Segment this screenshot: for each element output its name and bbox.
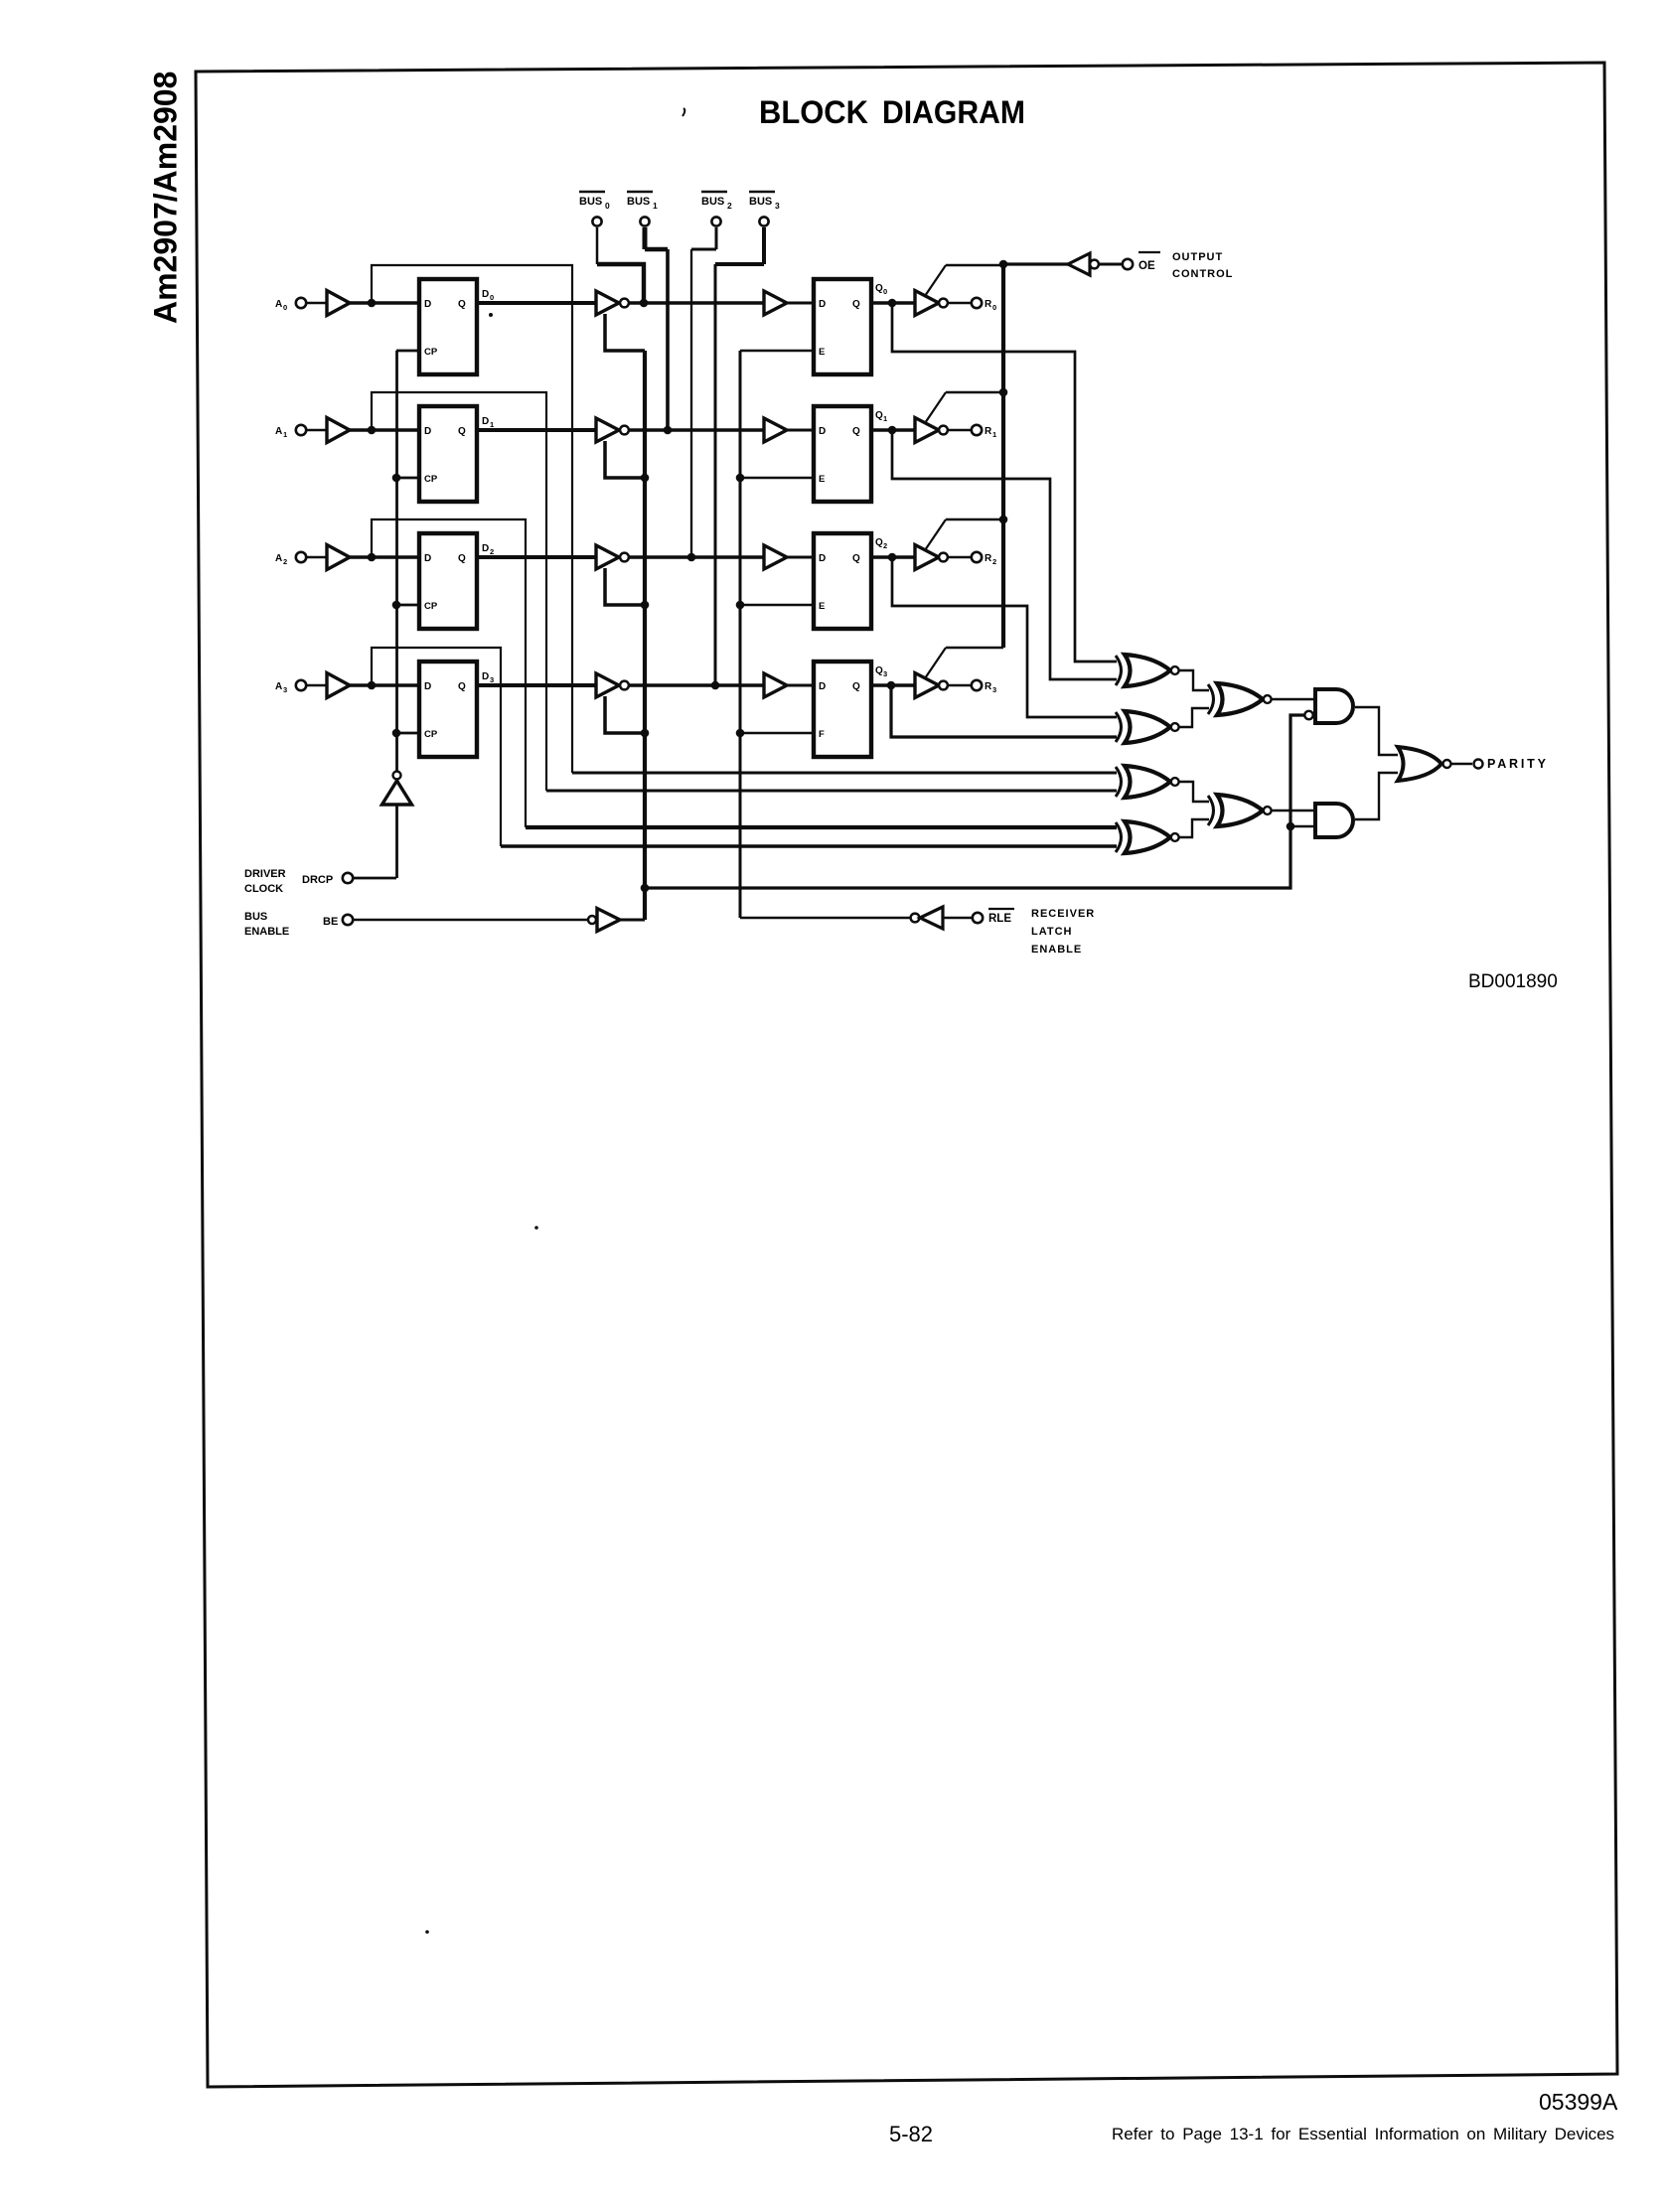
svg-text:R: R — [985, 426, 992, 437]
svg-text:0: 0 — [992, 303, 996, 312]
svg-text:D: D — [819, 299, 826, 310]
wire bus node row2 — [629, 555, 764, 559]
svg-text:A: A — [275, 299, 282, 310]
wire CP pin row2 — [396, 604, 419, 607]
BE buffer input bubble — [588, 916, 596, 924]
wire buffer0 output to latch D — [350, 301, 419, 305]
wire BE enable chain vertical — [643, 351, 647, 920]
wire buffer1 output to latch D — [350, 428, 419, 432]
node A0 input terminal — [275, 298, 306, 312]
wire RLE lead — [943, 917, 972, 920]
wire clock inverter input — [395, 805, 398, 878]
svg-text:0: 0 — [883, 287, 887, 296]
junction A1 feedback tap — [368, 426, 377, 435]
wire BE to parity gates — [645, 715, 1304, 888]
svg-text:Q: Q — [458, 426, 466, 437]
wire D2 latch Q to bus driver — [477, 555, 596, 559]
svg-text:BUS: BUS — [579, 196, 602, 208]
receiver buffer 1 — [764, 418, 787, 442]
svg-text:Refer to Page 13-1 for Essenti: Refer to Page 13-1 for Essential Informa… — [1112, 2125, 1614, 2143]
wire bus node row3 — [629, 683, 764, 687]
node R2 terminal — [972, 552, 996, 566]
svg-text:CP: CP — [424, 729, 438, 740]
wire D1 latch Q to bus driver — [477, 428, 596, 432]
wire receiver latch 0 E pin — [740, 350, 814, 353]
wire BE lead — [354, 919, 588, 922]
junction CP chain y481 — [392, 474, 401, 483]
svg-text:3: 3 — [283, 685, 287, 694]
node BE terminal — [343, 915, 353, 925]
wire output driver 2 enable jog — [946, 518, 1003, 521]
xnor gate X1 (Q0 xor Q1) — [1116, 655, 1179, 686]
wire output driver 1 enable diagonal — [925, 392, 946, 423]
wire BUS3 stem — [762, 227, 766, 264]
node DRCP terminal — [343, 873, 353, 883]
xnor gate X5 (second level, receiver side) — [1208, 683, 1272, 715]
wire G2 out — [1355, 773, 1398, 819]
wire BUS2 stem — [715, 227, 718, 249]
wire A2 lead — [307, 556, 328, 559]
svg-text:05399A: 05399A — [1539, 2089, 1618, 2115]
junction E chain y738 — [736, 729, 745, 738]
junction BE line / AND2 input — [1287, 822, 1295, 831]
svg-text:R: R — [985, 681, 992, 692]
wire receiver buffer 3 to latch — [787, 684, 814, 687]
svg-text:1: 1 — [653, 201, 658, 211]
scan speck near title — [683, 108, 684, 116]
wire output driver 3 enable diagonal — [925, 648, 946, 678]
label Q0 — [875, 283, 887, 296]
wire BE buffer out — [620, 919, 645, 922]
svg-text:2: 2 — [727, 201, 732, 211]
wire BUS3 jog — [715, 262, 764, 266]
wire latch2 Q to output driver — [871, 555, 915, 559]
svg-text:Q: Q — [458, 553, 466, 564]
svg-text:1: 1 — [490, 420, 494, 429]
svg-text:Q: Q — [852, 426, 860, 437]
wire buffer2 output to latch D — [350, 555, 419, 559]
svg-text:0: 0 — [283, 303, 287, 312]
junction Q0 feed tap — [888, 299, 897, 308]
wire bus node row1 — [629, 428, 764, 432]
svg-text:D: D — [424, 299, 431, 310]
page border frame — [196, 63, 1617, 2087]
bus driver 1 — [596, 418, 619, 442]
BE buffer — [597, 909, 620, 932]
driver latch 2 — [419, 533, 477, 629]
driver latch 3 — [419, 662, 477, 757]
scan speck mid page — [534, 1226, 538, 1230]
node A2 input terminal — [275, 552, 306, 566]
wire output driver 0 to R0 — [948, 302, 972, 305]
svg-text:3: 3 — [775, 201, 780, 211]
svg-text:D: D — [482, 289, 489, 300]
wire output driver 3 enable jog — [946, 647, 1003, 650]
svg-text:D: D — [424, 426, 431, 437]
svg-text:Q: Q — [875, 283, 883, 294]
junction E chain y609 — [736, 601, 745, 610]
junction enable chain y609 — [641, 601, 650, 610]
wire X5 out to NAND — [1272, 698, 1316, 700]
output driver 0 — [915, 291, 939, 316]
scan speck under D0 line — [489, 313, 493, 317]
wire BUS2 vertical to row2 — [690, 249, 692, 557]
xnor gate X4 (A2 xor A3) — [1116, 821, 1179, 853]
RLE inverter — [920, 907, 943, 929]
label OUTPUT CONTROL — [1172, 251, 1233, 280]
svg-text:Am2907/Am2908: Am2907/Am2908 — [148, 72, 184, 324]
input buffer A2 — [327, 545, 350, 570]
svg-text:D: D — [482, 543, 489, 554]
label D2 — [482, 543, 494, 556]
svg-text:Q: Q — [875, 665, 883, 676]
wire G1 out — [1355, 707, 1398, 755]
svg-text:D: D — [424, 681, 431, 692]
svg-text:BUS: BUS — [244, 911, 267, 923]
label D1 — [482, 416, 494, 429]
svg-text:1: 1 — [992, 430, 996, 439]
svg-text:3: 3 — [883, 669, 887, 678]
svg-text:BUS: BUS — [749, 196, 772, 208]
driver latch 0 — [419, 279, 477, 374]
bus driver 2 — [596, 545, 619, 569]
label Q1 — [875, 410, 887, 423]
wire latch1 Q to output driver — [871, 428, 915, 432]
junction CP chain y609 — [392, 601, 401, 610]
svg-text:DIAGRAM: DIAGRAM — [882, 94, 1025, 130]
output driver 1 — [915, 418, 939, 443]
wire PARITY lead — [1452, 763, 1473, 765]
wire X4 out — [1179, 819, 1210, 837]
svg-text:A: A — [275, 426, 282, 437]
bus driver 0 output bubble — [620, 299, 629, 308]
label D0 — [482, 289, 494, 302]
wire CP pin row3 — [396, 732, 419, 735]
output driver 3 — [915, 673, 939, 698]
wire receiver latch 1 E pin — [740, 477, 814, 480]
wire X3 out — [1179, 782, 1210, 802]
output driver 1 bubble — [939, 426, 948, 435]
wire receiver latch 2 E pin — [740, 604, 814, 607]
svg-text:E: E — [819, 601, 825, 612]
bus driver 3 output bubble — [620, 681, 629, 690]
svg-text:5-82: 5-82 — [889, 2122, 933, 2146]
svg-text:BE: BE — [323, 916, 338, 928]
label BUS ENABLE — [244, 911, 338, 938]
wire RLE latch-enable chain vertical — [739, 351, 742, 918]
svg-text:RECEIVER: RECEIVER — [1031, 908, 1095, 920]
wire receiver latch 3 E pin — [740, 732, 814, 735]
junction enable chain y481 — [641, 474, 650, 483]
svg-text:Q: Q — [458, 299, 466, 310]
wire parity line from A1 to XOR — [546, 790, 1117, 793]
wire receiver buffer 1 to latch — [787, 429, 814, 432]
svg-text:A: A — [275, 553, 282, 564]
wire A3 lead — [307, 684, 328, 687]
svg-text:BLOCK: BLOCK — [759, 94, 868, 130]
nand gate G1 — [1315, 689, 1353, 723]
wire latch3 Q to output driver — [871, 683, 915, 687]
receiver buffer 0 — [764, 291, 787, 315]
wire latch0 Q to output driver — [871, 301, 915, 305]
wire BUS0 stem — [596, 227, 599, 264]
svg-text:OUTPUT: OUTPUT — [1172, 251, 1223, 263]
svg-text:Q: Q — [875, 410, 883, 421]
node BUS3 terminal — [749, 192, 780, 226]
junction BUS1/row1 — [664, 426, 673, 435]
wire BUS2 jog — [691, 248, 716, 251]
wire parity line from A3 to XOR — [501, 844, 1117, 848]
wire output driver 1 enable jog — [946, 391, 1003, 394]
svg-text:D: D — [819, 553, 826, 564]
wire DRCP clock chain vertical — [395, 351, 398, 772]
wire receiver buffer 2 to latch — [787, 556, 814, 559]
junction BE/parity-gate line — [641, 884, 650, 893]
scan speck lower left — [425, 1930, 429, 1934]
svg-text:CONTROL: CONTROL — [1172, 268, 1233, 280]
OC inverter — [1068, 253, 1090, 275]
bus driver 1 output bubble — [620, 426, 629, 435]
svg-text:RLE: RLE — [988, 913, 1011, 925]
wire Q2 parity feed — [892, 557, 1117, 717]
node R1 terminal — [972, 425, 996, 439]
svg-text:D: D — [482, 671, 489, 682]
wire BE branch to AND2 — [1290, 825, 1315, 828]
svg-text:2: 2 — [992, 557, 996, 566]
bus driver 3 — [596, 673, 619, 697]
wire output driver 0 enable jog — [946, 264, 1003, 267]
svg-text:BUS: BUS — [701, 196, 724, 208]
label Q2 — [875, 537, 887, 550]
junction BUS0/row0 — [640, 299, 649, 308]
svg-text:E: E — [819, 474, 825, 485]
svg-text:0: 0 — [605, 201, 610, 211]
svg-text:OE: OE — [1138, 260, 1155, 272]
output driver 2 bubble — [939, 553, 948, 562]
nand gate G1 input bubble — [1304, 711, 1312, 719]
receiver buffer 2 — [764, 545, 787, 569]
svg-text:2: 2 — [490, 547, 494, 556]
label RECEIVER LATCH ENABLE — [1031, 908, 1095, 956]
xnor gate X6 (second level, driver side) — [1208, 795, 1272, 826]
nor gate G3 (parity output) — [1398, 747, 1451, 781]
wire BUS1 vertical to row1 — [666, 249, 670, 430]
node OE terminal — [1123, 252, 1160, 272]
output driver 2 — [915, 545, 939, 570]
label Q3 — [875, 665, 887, 678]
junction Q2 feed tap — [888, 553, 897, 562]
wire bus driver 2 enable jog — [605, 568, 645, 605]
svg-text:D: D — [424, 553, 431, 564]
output driver 0 bubble — [939, 299, 948, 308]
wire parity line from A2 to XOR — [526, 825, 1117, 829]
wire BUS1 jog — [645, 247, 668, 252]
svg-text:1: 1 — [883, 414, 887, 423]
node R3 terminal — [972, 680, 996, 694]
junction A2 feedback tap — [368, 553, 377, 562]
svg-text:3: 3 — [992, 685, 996, 694]
receiver latch 0 — [814, 279, 871, 374]
bus driver 2 output bubble — [620, 553, 629, 562]
wire DRCP lead — [354, 877, 396, 880]
receiver latch 2 — [814, 533, 871, 629]
node A1 input terminal — [275, 425, 306, 439]
wire bus node row0 — [629, 301, 764, 305]
junction enable chain y738 — [641, 729, 650, 738]
wire bus driver 0 enable jog — [605, 314, 645, 351]
wire bus driver 3 enable jog — [605, 696, 645, 733]
svg-text:3: 3 — [490, 675, 494, 684]
svg-text:R: R — [985, 553, 992, 564]
wire X6 out to AND2 — [1272, 810, 1316, 811]
wire parity line from A0 to XOR — [572, 772, 1117, 775]
wire A1 parity feed — [372, 392, 546, 791]
junction Q1 feed tap — [888, 426, 897, 435]
svg-text:CP: CP — [424, 601, 438, 612]
wire BUS1 stem — [643, 227, 648, 249]
svg-text:D: D — [482, 416, 489, 427]
wire output driver 1 to R1 — [948, 429, 972, 432]
svg-text:Q: Q — [852, 299, 860, 310]
junction Q3 feed tap — [887, 681, 896, 690]
svg-text:DRIVER: DRIVER — [244, 868, 286, 880]
xnor gate X2 (Q2 xor Q3) — [1116, 711, 1179, 743]
wire OC output-control chain vertical — [1001, 264, 1005, 648]
svg-text:Q: Q — [852, 553, 860, 564]
xnor gate X3 (A0 xor A1) — [1116, 766, 1179, 798]
svg-text:DRCP: DRCP — [302, 874, 333, 886]
junction CP chain y738 — [392, 729, 401, 738]
junction OC chain y395 — [999, 388, 1008, 397]
wire bus driver 1 enable jog — [605, 441, 645, 478]
node RLE terminal — [973, 909, 1014, 925]
wire A0 parity feed — [372, 265, 572, 773]
wire X2 out — [1179, 708, 1210, 727]
bus driver 0 — [596, 291, 619, 315]
clock inverter bubble — [393, 772, 401, 780]
svg-text:PARITY: PARITY — [1487, 757, 1549, 771]
wire CP pin row1 — [396, 477, 419, 480]
wire A2 parity feed — [372, 519, 526, 827]
junction BUS2/row2 — [687, 553, 696, 562]
svg-text:CLOCK: CLOCK — [244, 883, 283, 895]
RLE inverter output bubble — [911, 914, 920, 923]
node A3 input terminal — [275, 680, 306, 694]
wire output driver 2 enable diagonal — [925, 519, 946, 550]
input buffer A0 — [327, 291, 350, 316]
svg-text:2: 2 — [283, 557, 287, 566]
wire A3 parity feed — [372, 648, 501, 846]
svg-text:CP: CP — [424, 474, 438, 485]
svg-text:D: D — [819, 681, 826, 692]
wire receiver buffer 0 to latch — [787, 302, 814, 305]
svg-text:0: 0 — [490, 293, 494, 302]
wire D3 latch Q to bus driver — [477, 683, 596, 687]
svg-text:2: 2 — [883, 541, 887, 550]
input buffer A1 — [327, 418, 350, 443]
wire output driver 2 to R2 — [948, 556, 972, 559]
node PARITY terminal — [1474, 757, 1549, 771]
output driver 3 bubble — [939, 681, 948, 690]
junction A3 feedback tap — [368, 681, 377, 690]
svg-text:A: A — [275, 681, 282, 692]
svg-text:Q: Q — [458, 681, 466, 692]
driver latch 1 — [419, 406, 477, 502]
wire output driver 3 to R3 — [948, 684, 972, 687]
clock inverter (DRCP) — [382, 781, 412, 805]
svg-text:R: R — [985, 299, 992, 310]
junction E chain y481 — [736, 474, 745, 483]
wire buffer3 output to latch D — [350, 683, 419, 687]
label D3 — [482, 671, 494, 684]
label DRIVER CLOCK — [244, 868, 333, 895]
wire output driver 0 enable diagonal — [925, 265, 946, 296]
wire CP pin row0 — [396, 350, 419, 353]
node BUS0 terminal — [579, 192, 610, 226]
receiver latch 1 — [814, 406, 871, 502]
node BUS1 terminal — [627, 192, 658, 226]
svg-text:Q: Q — [875, 537, 883, 548]
wire X1 out — [1179, 670, 1210, 690]
wire A1 lead — [307, 429, 328, 432]
wire Q3 parity feed — [891, 685, 1117, 737]
svg-text:1: 1 — [283, 430, 287, 439]
wire Q1 parity feed — [892, 430, 1117, 679]
svg-text:D: D — [819, 426, 826, 437]
svg-text:CP: CP — [424, 347, 438, 358]
wire OE lead — [1099, 263, 1123, 266]
input buffer A3 — [327, 673, 350, 698]
svg-text:ENABLE: ENABLE — [1031, 944, 1082, 956]
svg-text:F: F — [819, 729, 825, 740]
receiver buffer 3 — [764, 673, 787, 697]
junction BUS3/row3 — [711, 681, 720, 690]
wire OC inverter out — [1003, 262, 1068, 265]
receiver latch 3 — [814, 662, 871, 757]
svg-text:LATCH: LATCH — [1031, 926, 1072, 938]
title BLOCK DIAGRAM — [759, 94, 1025, 130]
junction OC top — [999, 260, 1008, 269]
wire RLE inverter out — [740, 917, 911, 920]
svg-text:BD001890: BD001890 — [1468, 971, 1558, 992]
wire A0 lead — [307, 302, 328, 305]
node R0 terminal — [972, 298, 996, 312]
svg-text:ENABLE: ENABLE — [244, 926, 289, 938]
wire BUS3 vertical to row3 — [714, 264, 717, 685]
node BUS2 terminal — [701, 192, 732, 226]
svg-text:E: E — [819, 347, 825, 358]
OC inverter input bubble — [1090, 260, 1099, 269]
svg-text:Q: Q — [852, 681, 860, 692]
wire BUS0 jog to row0 — [597, 264, 644, 303]
wire Q0 parity feed — [892, 303, 1117, 662]
wire D0 latch Q to bus driver — [477, 301, 596, 305]
svg-text:BUS: BUS — [627, 196, 650, 208]
and gate G2 — [1315, 804, 1353, 837]
junction A0 feedback tap — [368, 299, 377, 308]
junction OC chain y523 — [999, 516, 1008, 524]
